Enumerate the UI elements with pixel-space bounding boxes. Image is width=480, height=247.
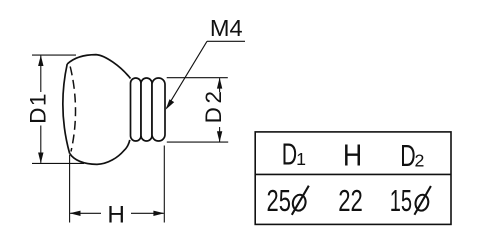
D1 top extension line (32, 54, 76, 56)
H dimension line right (131, 212, 164, 214)
svg-text:D2: D2 (201, 87, 226, 123)
hidden face edge (dashed) (70, 67, 75, 152)
knob head outline (67, 55, 130, 79)
thread rib 2 (141, 78, 152, 141)
D1 arrow down (38, 153, 43, 164)
D1 arrow up (38, 55, 43, 66)
svg-text:D: D (400, 139, 415, 173)
svg-text:M4: M4 (210, 15, 243, 41)
D2 dimension line upper (219, 78, 221, 92)
D2 top extension line (167, 77, 228, 79)
svg-text:22: 22 (338, 183, 363, 218)
table row divider (255, 173, 451, 175)
svg-text:2: 2 (415, 151, 425, 171)
D1 dimension line lower (40, 126, 42, 163)
diameter symbol for 25 (291, 186, 308, 215)
svg-text:H: H (343, 138, 362, 172)
D2 bottom extension line (167, 141, 228, 143)
D2 arrow down (217, 131, 222, 142)
H arrow right (153, 211, 164, 216)
M4 leader arrowhead (166, 99, 175, 110)
diameter symbol for 15 (414, 186, 431, 215)
D2 dimension line lower (219, 127, 221, 142)
knob head bottom arc (70, 140, 130, 165)
knob front face edge (63, 64, 70, 153)
D1 bottom extension line (32, 162, 84, 164)
table frame (255, 132, 451, 225)
svg-text:15: 15 (390, 183, 412, 218)
D1 dimension line upper (40, 56, 42, 92)
H left extension line (69, 155, 71, 223)
H right extension line (163, 146, 165, 223)
H arrow left (70, 211, 81, 216)
thread rib 3 (152, 78, 165, 141)
svg-text:25: 25 (267, 183, 291, 218)
svg-text:1: 1 (296, 149, 306, 169)
M4 leader diagonal (167, 41, 208, 108)
thread rib 1 (131, 78, 142, 141)
H dimension line left (70, 212, 101, 214)
svg-text:D: D (282, 137, 297, 171)
svg-text:H: H (107, 202, 125, 229)
svg-text:D1: D1 (26, 92, 51, 124)
D2 arrow up (217, 78, 222, 89)
M4 leader horizontal (207, 40, 245, 42)
